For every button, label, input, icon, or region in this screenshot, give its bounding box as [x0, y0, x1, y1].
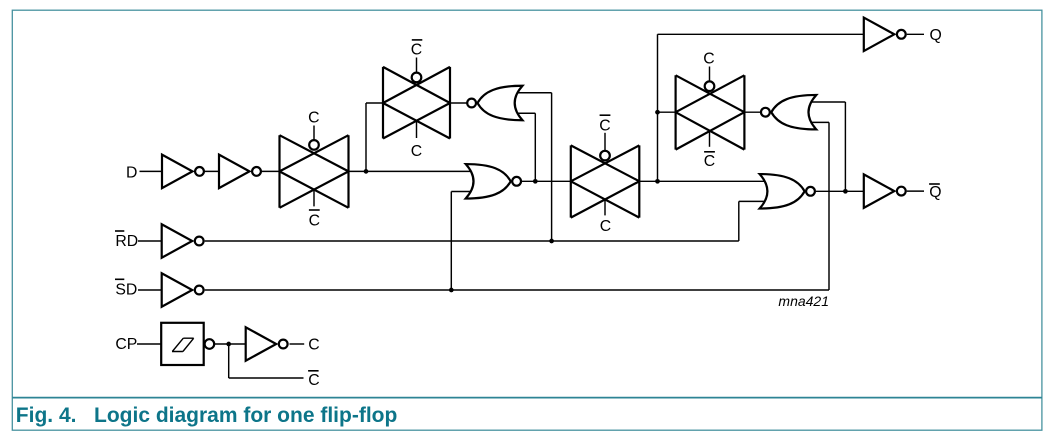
- svg-text:CP: CP: [115, 336, 137, 353]
- transmission gate TG4: [676, 75, 745, 149]
- label Cbar net: [308, 370, 319, 372]
- wire RD riser to NOR4: [738, 201, 740, 241]
- wire Qbar inverter to Qbar: [907, 190, 924, 192]
- wire riser to TG4 input: [658, 111, 676, 113]
- svg-text:C: C: [703, 50, 714, 67]
- hysteresis symbol: [172, 338, 194, 351]
- svg-text:Q: Q: [929, 184, 941, 201]
- caption separator line: [12, 397, 1042, 399]
- svg-text:mna421: mna421: [778, 293, 829, 309]
- wire top wire to Q inverter: [658, 33, 864, 35]
- wire TG1 C stem: [313, 126, 315, 141]
- bubble Schmitt box output: [205, 339, 215, 349]
- wire NOR1 bottom input: [500, 112, 535, 114]
- transmission gate TG1: [280, 135, 349, 208]
- wire SD long wire: [205, 289, 829, 291]
- label RD input: [115, 230, 124, 232]
- wire TG3 output to NOR4: [639, 180, 766, 182]
- wire box to C inverter: [214, 343, 246, 345]
- wire SD to NOR2 input: [451, 191, 474, 193]
- wire TG1 Cbar stem: [313, 190, 315, 206]
- svg-text:C: C: [411, 143, 422, 160]
- wire node A riser to TG2: [365, 103, 367, 171]
- wire Qbar node to NOR3 riser: [844, 102, 846, 191]
- wire SD to inverter: [138, 289, 162, 291]
- node node D (Qbar): [843, 189, 848, 194]
- inverter U6 (Q output): [864, 18, 895, 52]
- wire TG2 C stem: [416, 122, 418, 138]
- svg-text:RD: RD: [115, 233, 138, 250]
- transmission gate TG2: [383, 67, 450, 139]
- wire SD to NOR3 riser: [828, 122, 830, 290]
- svg-text:C: C: [308, 110, 319, 127]
- inverter U5 (C inverter): [246, 327, 277, 361]
- label SD input: [115, 278, 124, 280]
- bubble TG2 Cbar control: [412, 73, 422, 83]
- node node C (TG3 output): [655, 179, 660, 184]
- wire TG4 to NOR3 output bubble: [744, 111, 762, 113]
- wire NOR3 top input: [795, 101, 845, 103]
- node RD tap: [549, 239, 554, 244]
- node TG4 input tap: [655, 110, 660, 115]
- node node B (NOR2 output): [533, 179, 538, 184]
- wire RD to NOR4 input: [739, 200, 766, 202]
- wire NOR2 out to NOR1 riser: [534, 113, 536, 181]
- bubble TG3 Cbar control: [600, 151, 610, 161]
- wire TG4 Cbar stem: [709, 131, 711, 147]
- svg-text:C: C: [600, 218, 611, 235]
- svg-text:Q: Q: [930, 27, 942, 44]
- wire TG2 Cbar stem: [416, 58, 418, 74]
- Schmitt-trigger clock shaper box: [161, 323, 204, 365]
- node node A (TG1 output): [364, 169, 369, 174]
- inverter U7 (Qbar output): [864, 174, 895, 208]
- wire NOR1 top input: [500, 92, 552, 94]
- svg-text:C: C: [704, 153, 715, 170]
- wire SD riser to NOR2: [450, 192, 452, 291]
- label Qbar output: [929, 183, 940, 185]
- svg-text:C: C: [411, 41, 422, 58]
- svg-text:C: C: [599, 118, 610, 135]
- wire RD long wire: [205, 240, 739, 242]
- wire node C riser: [657, 34, 659, 181]
- bubble TG1 C control: [309, 140, 319, 150]
- node CP node: [226, 342, 231, 347]
- label TG3 top control Cbar: [600, 114, 611, 116]
- wire TG4 C stem: [709, 67, 711, 83]
- svg-text:SD: SD: [115, 282, 137, 299]
- wire U2 to TG1: [255, 170, 280, 172]
- wire CP to Schmitt box: [137, 343, 161, 345]
- NOR gate N1 (flipped, output left): [478, 86, 523, 121]
- inverter U4 (SD inverter): [162, 273, 193, 307]
- wire NOR4 output to Qbar inverter: [816, 190, 864, 192]
- svg-text:C: C: [309, 213, 320, 230]
- wire NOR3 bottom input: [795, 121, 829, 123]
- svg-text:C: C: [308, 336, 319, 353]
- NOR gate N4: [760, 174, 805, 209]
- inverter U2 (D buffer 2): [219, 155, 250, 189]
- wire TG1 output to NOR2: [349, 170, 474, 172]
- wire U1 to U2: [197, 170, 219, 172]
- wire CP node down: [228, 344, 230, 378]
- wire TG3 Cbar stem: [604, 133, 606, 151]
- bubble TG4 C control: [705, 81, 715, 91]
- svg-text:D: D: [126, 165, 137, 182]
- NOR gate N3 (flipped, output left): [771, 95, 816, 130]
- wire TG2 to NOR1 output bubble: [450, 102, 468, 104]
- wire to Cbar label: [229, 377, 304, 379]
- wire RD to inverter: [138, 240, 162, 242]
- wire Q inverter to Q: [907, 33, 924, 35]
- wire D to inverter: [140, 170, 163, 172]
- label TG1 bottom control Cbar: [309, 209, 320, 211]
- wire riser to TG2 input: [366, 102, 383, 104]
- svg-text:Fig. 4.: Fig. 4.: [16, 404, 77, 427]
- svg-text:Logic diagram for one flip-flo: Logic diagram for one flip-flop: [94, 404, 397, 427]
- wire NOR2 output to TG3: [522, 180, 571, 182]
- svg-text:C: C: [308, 372, 319, 389]
- inverter U1 (D buffer 1): [162, 155, 193, 189]
- wire RD to NOR1 riser: [551, 93, 553, 241]
- label TG4 bottom control Cbar: [704, 151, 715, 153]
- label TG2 top control Cbar: [412, 39, 423, 41]
- transmission gate TG3: [571, 145, 640, 217]
- node SD tap: [449, 288, 454, 293]
- inverter U3 (RD inverter): [162, 224, 193, 258]
- NOR gate N2: [466, 164, 511, 199]
- wire TG3 C stem: [604, 200, 606, 216]
- wire to C label: [290, 343, 305, 345]
